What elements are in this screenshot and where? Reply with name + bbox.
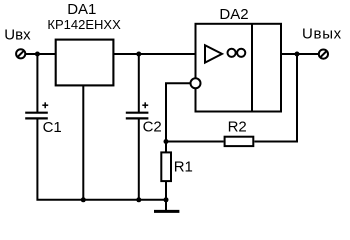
- DA2 inverting input circle: [191, 78, 201, 88]
- svg-text:DA2: DA2: [219, 6, 248, 23]
- resistor R1: [165, 142, 167, 152]
- svg-text:Uвх: Uвх: [4, 26, 31, 43]
- node C2 junction: [136, 52, 141, 57]
- wire node to C1 top plate: [36, 54, 38, 112]
- node rail / ground junction: [164, 197, 169, 202]
- node C2 / rail junction: [136, 197, 141, 202]
- wire input terminal to DA1: [25, 53, 56, 55]
- wire DA1 output to DA2 input: [114, 53, 196, 55]
- regulator DA1 box: [56, 40, 114, 86]
- wire C1 bottom plate to ground rail: [37, 118, 167, 199]
- node input/C1 junction: [35, 52, 40, 57]
- C2 polarity plus: [142, 102, 148, 108]
- input terminal X1: [16, 49, 25, 58]
- wire R2 to output node: [254, 54, 297, 142]
- C1 polarity plus: [42, 102, 48, 108]
- DA2 infinity gain symbol: [228, 49, 246, 57]
- ground: [165, 200, 167, 212]
- svg-text:C1: C1: [43, 119, 62, 136]
- capacitor C2: [126, 113, 149, 119]
- wire DA1 bottom pin to ground rail: [82, 85, 84, 200]
- svg-text:R1: R1: [174, 159, 193, 176]
- node R1/R2/feedback junction: [164, 139, 169, 144]
- capacitor C1: [25, 113, 48, 119]
- DA2 internal divider: [251, 24, 253, 112]
- wire node to C2 top plate: [138, 54, 140, 112]
- output terminal X2: [319, 50, 328, 59]
- node DA1 pin / rail junction: [81, 197, 86, 202]
- wire feedback: inverting input to R1/R2 node: [166, 83, 191, 141]
- wire node to R2: [166, 141, 224, 143]
- svg-text:DA1: DA1: [67, 1, 96, 18]
- wire C2 bottom plate to ground rail: [138, 118, 140, 199]
- svg-text:R2: R2: [228, 119, 247, 136]
- DA2 amplifier triangle: [205, 45, 222, 62]
- svg-text:Uвых: Uвых: [302, 26, 342, 43]
- svg-text:C2: C2: [143, 119, 162, 136]
- svg-text:КР142ЕНХХ: КР142ЕНХХ: [47, 17, 121, 32]
- op-amp DA2 box: [196, 24, 282, 112]
- node output junction: [295, 52, 300, 57]
- wire DA2 output to output terminal: [281, 53, 319, 55]
- resistor R2: [225, 137, 254, 146]
